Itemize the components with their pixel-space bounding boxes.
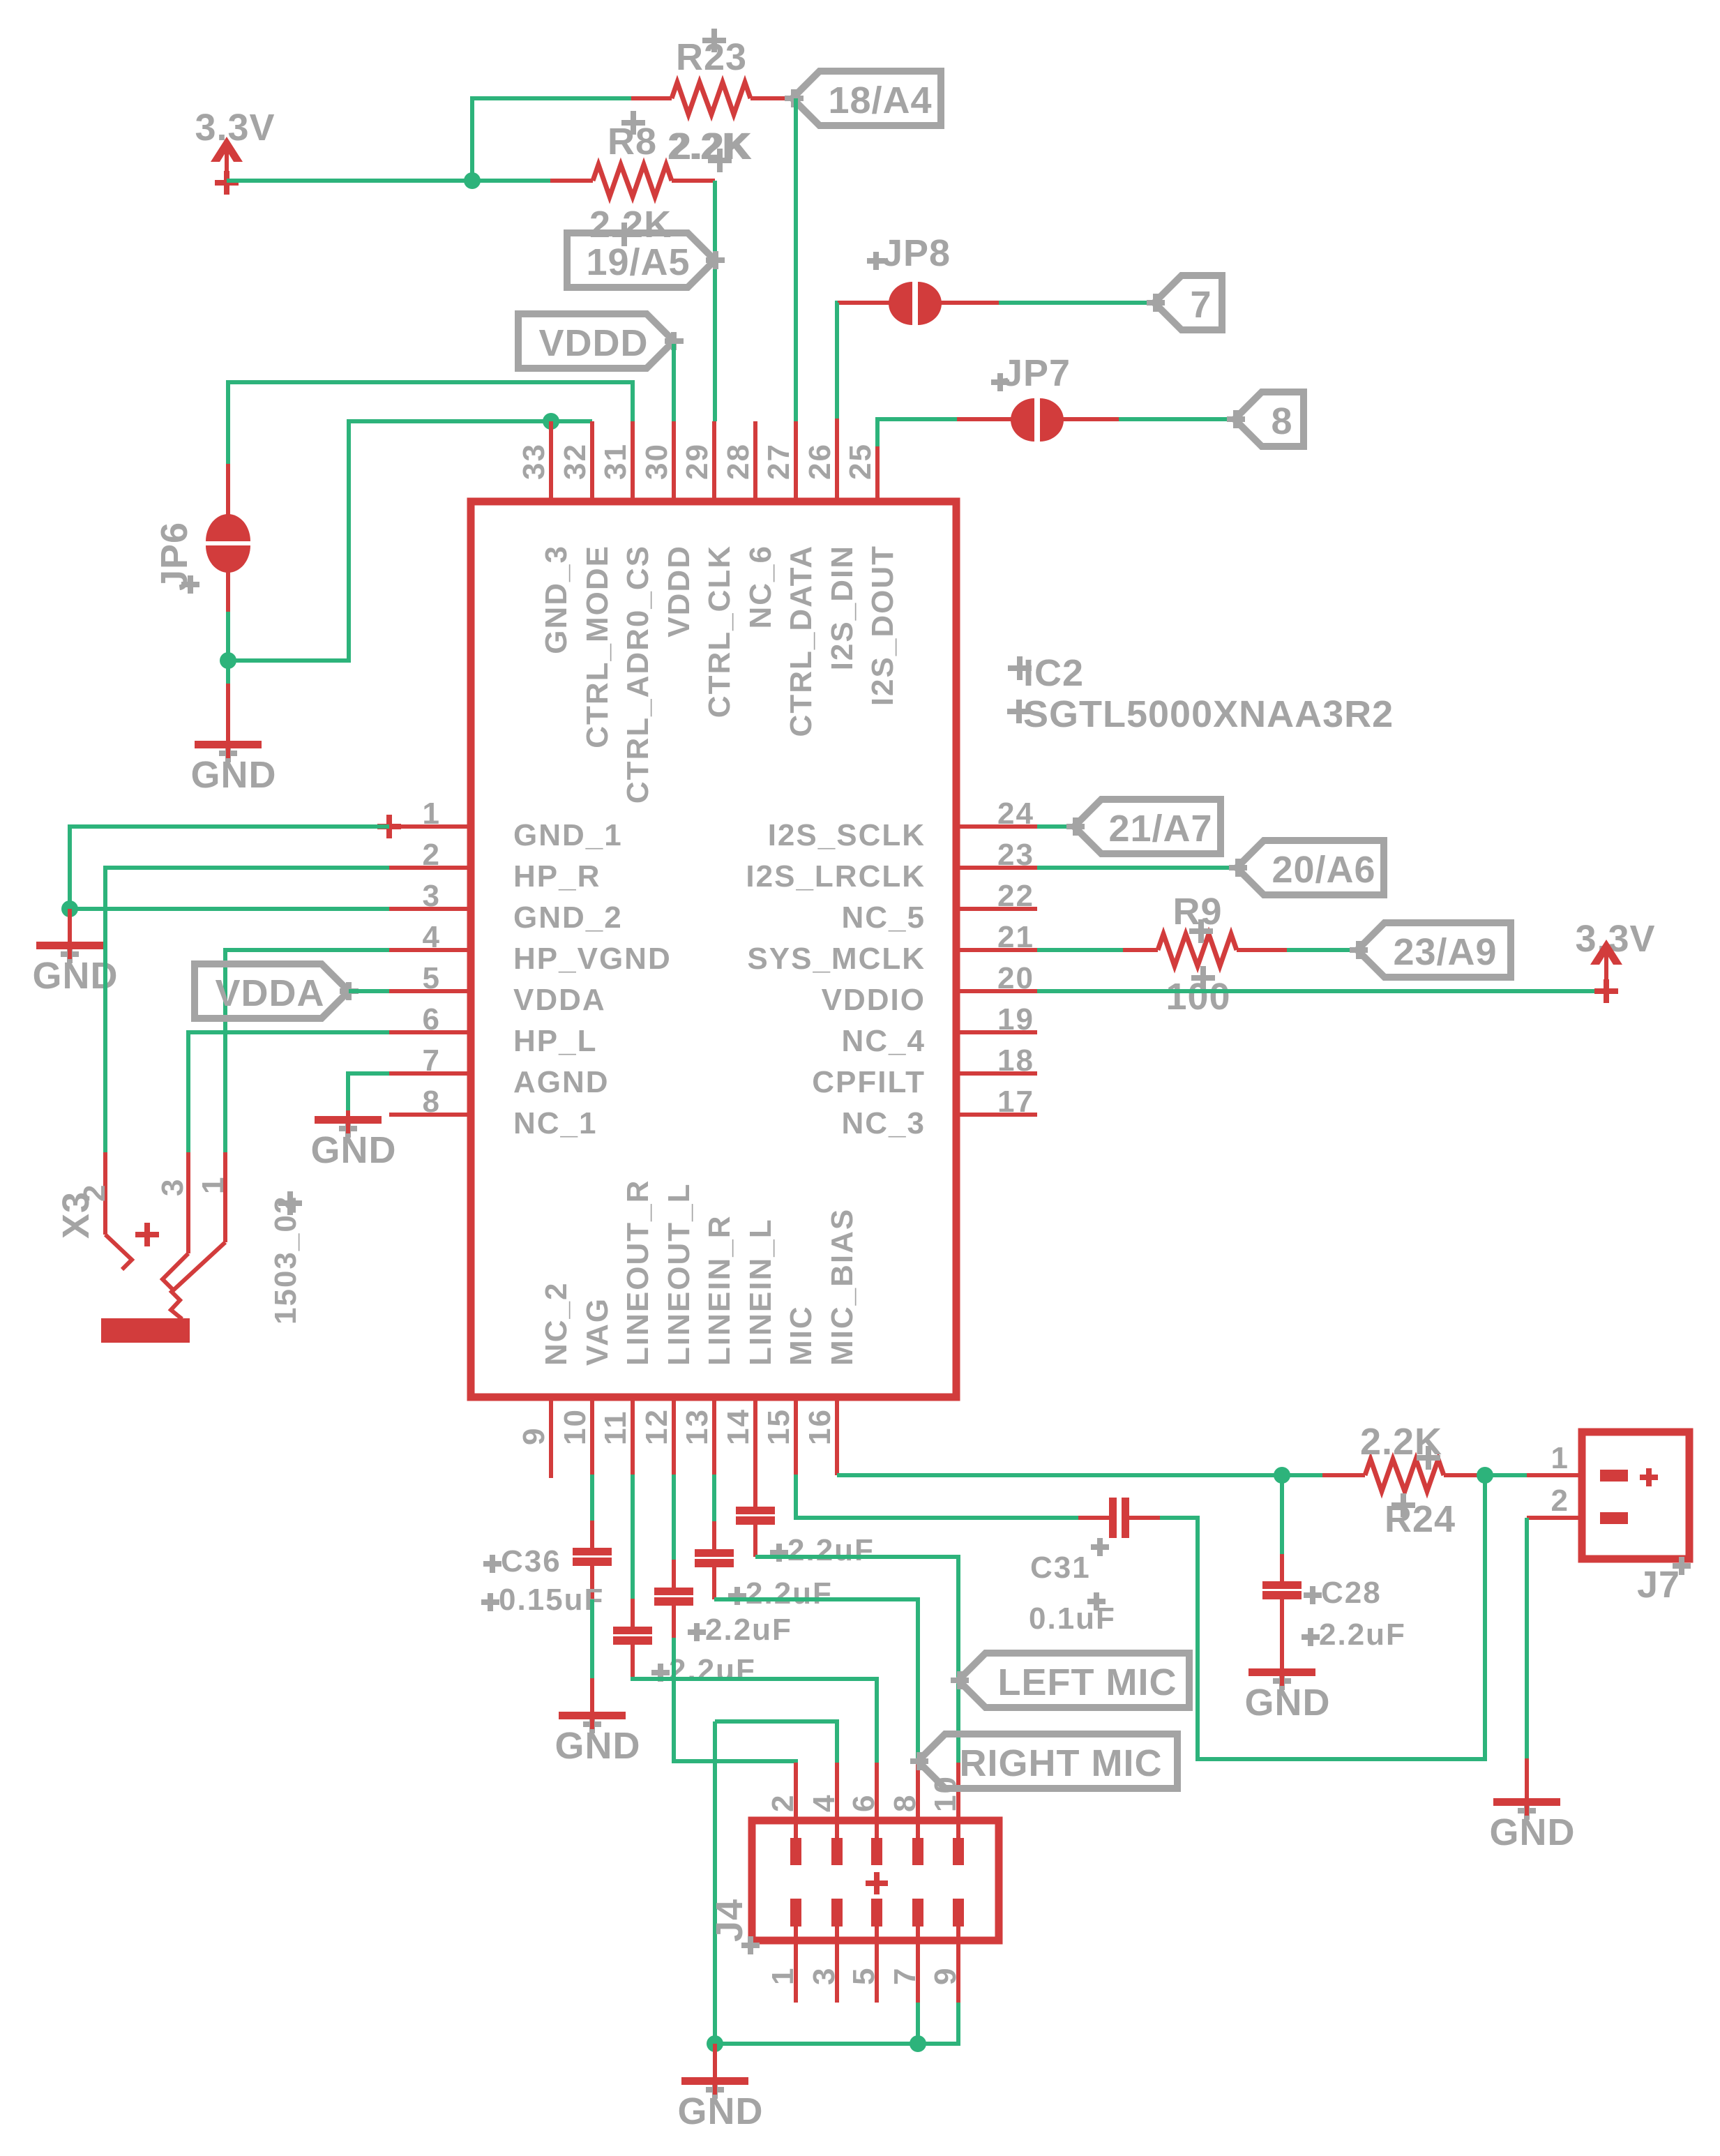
- IC2 pin 14 LINEIN_L: [721, 1218, 778, 1507]
- svg-text:1: 1: [1551, 1441, 1569, 1475]
- svg-text:4: 4: [423, 920, 441, 954]
- svg-text:GND_2: GND_2: [513, 900, 623, 935]
- svg-text:1: 1: [196, 1176, 230, 1194]
- svg-text:19: 19: [997, 1002, 1034, 1036]
- IC2 pin 15 MIC: [762, 1305, 818, 1475]
- svg-text:I2S_LRCLK: I2S_LRCLK: [746, 859, 926, 894]
- capacitor C28 2.2uF: [1262, 1554, 1406, 1668]
- svg-text:C31: C31: [1030, 1551, 1091, 1585]
- header J4: [709, 1763, 999, 2003]
- wire LINEIN_L cap to LEFT MIC / J4 pin 10: [755, 1557, 958, 1763]
- capacitor C31 0.1uF: [1029, 1498, 1160, 1636]
- svg-text:0.1uF: 0.1uF: [1029, 1601, 1116, 1636]
- resistor R9: [1123, 891, 1287, 1018]
- IC2 pin 18 CPFILT: [812, 1043, 1037, 1099]
- capacitor C36 0.15uF: [481, 1521, 612, 1617]
- wire IC pin 15 to C31: [796, 1475, 1078, 1518]
- svg-text:2: 2: [766, 1794, 800, 1812]
- IC2 pin 5 VDDA: [389, 961, 606, 1017]
- svg-text:100: 100: [1165, 976, 1230, 1018]
- svg-text:CPFILT: CPFILT: [812, 1065, 926, 1099]
- capacitor 2.2uF (LINEIN_R): [695, 1521, 833, 1611]
- resistor R8: [550, 111, 750, 246]
- svg-text:18/A4: 18/A4: [828, 80, 932, 121]
- wire VDDD flag to IC pin 30: [672, 344, 676, 421]
- svg-text:2: 2: [423, 838, 441, 872]
- svg-text:SGTL5000XNAA3R2: SGTL5000XNAA3R2: [1023, 693, 1394, 735]
- wire R9 to flag 23/A9: [1287, 948, 1357, 952]
- flag 7: [1147, 276, 1222, 330]
- svg-text:LINEOUT_R: LINEOUT_R: [621, 1179, 655, 1366]
- IC2 pin 11 LINEOUT_R: [598, 1179, 655, 1475]
- svg-text:NC_4: NC_4: [842, 1024, 926, 1058]
- wire IC pin 6 to jack X3 contact 3: [188, 1032, 389, 1152]
- junction at C28 tap: [1274, 1467, 1290, 1484]
- svg-text:CTRL_MODE: CTRL_MODE: [580, 545, 614, 748]
- wire C31 to R24/J7 node: [1160, 1475, 1485, 1759]
- svg-text:2.2uF: 2.2uF: [787, 1533, 875, 1567]
- wire IC pin 16 MIC_BIAS to R24: [837, 1473, 1322, 1477]
- svg-text:JP8: JP8: [882, 232, 951, 274]
- resistor R23: [631, 29, 795, 172]
- flag VDDD: [518, 314, 684, 368]
- svg-text:0.15uF: 0.15uF: [499, 1583, 604, 1617]
- wire R23 right down to IC pin 27: [794, 98, 798, 421]
- svg-text:2.2uF: 2.2uF: [705, 1613, 792, 1647]
- svg-text:21: 21: [997, 920, 1034, 954]
- wire junction to J7 pin 1: [1485, 1473, 1527, 1477]
- svg-text:3.3V: 3.3V: [195, 107, 275, 149]
- svg-text:13: 13: [680, 1408, 714, 1445]
- svg-text:MIC: MIC: [784, 1305, 818, 1366]
- IC2 pin 22 NC_5: [842, 879, 1038, 935]
- svg-text:3.3V: 3.3V: [1575, 918, 1655, 960]
- wire IC pin 26 up to JP8: [837, 303, 838, 421]
- svg-text:27: 27: [762, 443, 796, 480]
- svg-text:2.2K: 2.2K: [589, 204, 672, 246]
- wire LINEOUT_L cap to J4 pin 2: [674, 1638, 796, 1763]
- svg-text:RIGHT MIC: RIGHT MIC: [960, 1742, 1163, 1784]
- junction at JP6 bottom: [220, 652, 236, 669]
- flag 19/A5: [567, 233, 725, 287]
- ground GND below JP6: [191, 684, 277, 796]
- capacitor 2.2uF (LINEIN_L, on pin 14): [736, 1507, 875, 1567]
- svg-text:15: 15: [762, 1408, 796, 1445]
- svg-text:CTRL_CLK: CTRL_CLK: [702, 545, 737, 718]
- IC2 pin 12 LINEOUT_L: [640, 1183, 696, 1475]
- IC2 pin 10 VAG: [558, 1297, 614, 1475]
- IC2 pin 16 MIC_BIAS: [803, 1208, 859, 1475]
- svg-text:C36: C36: [501, 1544, 561, 1578]
- svg-text:7: 7: [423, 1043, 441, 1078]
- wire IC pin 3 to GND junction: [70, 907, 389, 911]
- svg-text:32: 32: [558, 443, 592, 480]
- jumper JP7: [957, 352, 1119, 442]
- wire JP6 top to IC pin 31: [228, 382, 633, 464]
- svg-text:9: 9: [517, 1427, 551, 1445]
- svg-text:28: 28: [721, 443, 755, 480]
- svg-text:GND_1: GND_1: [513, 818, 623, 852]
- svg-text:C28: C28: [1321, 1576, 1382, 1610]
- svg-text:GND: GND: [1245, 1682, 1331, 1724]
- svg-text:23: 23: [997, 838, 1034, 872]
- svg-text:NC_2: NC_2: [539, 1282, 573, 1366]
- svg-text:3: 3: [807, 1967, 841, 1985]
- wire junction up to R23 row: [472, 98, 631, 181]
- connector J7: [1527, 1432, 1691, 1606]
- junction J4 pin 7 at GND rail: [910, 2035, 926, 2052]
- svg-text:9: 9: [928, 1967, 963, 1985]
- IC2 origin cross (pin 1 tip): [377, 815, 401, 838]
- svg-text:29: 29: [680, 443, 714, 480]
- ground GND (below C28): [1245, 1664, 1331, 1724]
- IC2 pin 6 HP_L: [389, 1002, 597, 1058]
- wire JP6 bottom to GND and pins 33/32: [226, 612, 230, 684]
- svg-text:GND: GND: [311, 1129, 397, 1171]
- svg-text:LEFT MIC: LEFT MIC: [998, 1661, 1177, 1703]
- svg-text:20: 20: [997, 961, 1034, 995]
- IC2 pin 28 NC_6: [721, 421, 778, 629]
- IC2 pin 9 NC_2: [517, 1282, 573, 1479]
- IC2 name/value labels: [1007, 652, 1394, 735]
- wire IC pin 10 down to C36: [590, 1475, 594, 1521]
- IC2 pin 23 I2S_LRCLK: [746, 838, 1037, 894]
- svg-text:I2S_DIN: I2S_DIN: [825, 545, 859, 670]
- ground GND (below J4): [678, 2044, 764, 2132]
- IC2 pin 32 CTRL_MODE: [558, 421, 614, 748]
- IC2 pin 26 I2S_DIN: [803, 419, 859, 670]
- svg-text:25: 25: [843, 443, 877, 480]
- junction at 3.3V wire split: [464, 172, 481, 189]
- power flag 3.3V (right): [1575, 918, 1655, 1003]
- svg-text:7: 7: [1190, 284, 1212, 326]
- svg-text:VDDD: VDDD: [538, 322, 648, 364]
- svg-text:7: 7: [888, 1967, 922, 1985]
- junction at IC pin 33: [543, 413, 559, 430]
- svg-text:J7: J7: [1637, 1564, 1680, 1606]
- junction pins 1/3 GND: [61, 900, 78, 917]
- svg-text:VDDD: VDDD: [662, 545, 696, 638]
- wire LINEIN_R cap to RIGHT MIC / J4 pin 8: [714, 1599, 918, 1763]
- wire IC pin 23 to flag 20/A6: [1037, 866, 1237, 870]
- svg-text:19/A5: 19/A5: [586, 241, 690, 283]
- svg-text:VAG: VAG: [580, 1297, 614, 1366]
- svg-text:22: 22: [997, 879, 1034, 913]
- junction GND rail bottom: [707, 2035, 723, 2052]
- svg-text:J4: J4: [709, 1899, 750, 1942]
- svg-text:I2S_DOUT: I2S_DOUT: [866, 545, 900, 706]
- svg-text:CTRL_ADR0_CS: CTRL_ADR0_CS: [621, 545, 655, 804]
- wire IC pin 21 to R9: [1037, 948, 1123, 952]
- svg-text:1503_02: 1503_02: [269, 1196, 303, 1325]
- wire IC pin 20 to 3.3V right: [1037, 989, 1606, 993]
- svg-text:1: 1: [423, 797, 441, 831]
- svg-text:12: 12: [640, 1408, 674, 1445]
- wire IC pin 7 to GND: [348, 1073, 389, 1110]
- IC2 pin 4 HP_VGND: [389, 920, 672, 976]
- flag 23/A9: [1350, 923, 1511, 977]
- wire IC pin 25 to JP7: [877, 419, 957, 446]
- svg-text:23/A9: 23/A9: [1393, 931, 1497, 973]
- svg-text:20/A6: 20/A6: [1272, 849, 1375, 891]
- wire IC pin 13 down to cap: [712, 1475, 716, 1521]
- svg-text:14: 14: [721, 1408, 755, 1445]
- svg-text:GND: GND: [678, 2090, 764, 2132]
- svg-text:16: 16: [803, 1408, 837, 1445]
- svg-text:HP_R: HP_R: [513, 859, 601, 894]
- svg-text:21/A7: 21/A7: [1108, 808, 1212, 850]
- svg-text:1: 1: [766, 1967, 800, 1985]
- wire J4 pin 9 to GND rail: [715, 2003, 958, 2044]
- svg-text:5: 5: [847, 1967, 881, 1985]
- svg-text:LINEOUT_L: LINEOUT_L: [662, 1183, 696, 1366]
- junction at R24 right / J7 pin 1: [1477, 1467, 1493, 1484]
- flag VDDA: [195, 964, 359, 1018]
- svg-text:6: 6: [847, 1794, 881, 1812]
- svg-text:3: 3: [423, 879, 441, 913]
- svg-text:NC_5: NC_5: [842, 900, 926, 935]
- svg-text:11: 11: [598, 1410, 633, 1445]
- svg-text:JP7: JP7: [1002, 352, 1071, 394]
- svg-text:HP_VGND: HP_VGND: [513, 942, 672, 976]
- ground GND (J7 pin 2): [1490, 1758, 1576, 1853]
- flag 8: [1227, 392, 1304, 446]
- svg-text:NC_3: NC_3: [842, 1106, 926, 1140]
- wire IC pin 2 to jack X3 tip contact: [105, 868, 389, 1152]
- svg-text:8: 8: [1271, 400, 1292, 442]
- svg-text:6: 6: [423, 1002, 441, 1036]
- svg-text:5: 5: [423, 961, 441, 995]
- IC2 pin 17 NC_3: [842, 1085, 1038, 1140]
- svg-text:NC_6: NC_6: [744, 545, 778, 629]
- op-amp/codec IC2 SGTL5000 box: [471, 502, 956, 1397]
- svg-text:GND_3: GND_3: [539, 545, 573, 654]
- wire IC pin 4 to jack X3 contact 1: [225, 950, 389, 1152]
- wire C28 tap down: [1280, 1475, 1284, 1554]
- svg-text:IC2: IC2: [1023, 652, 1084, 694]
- svg-text:2: 2: [77, 1184, 112, 1202]
- flag RIGHT MIC: [910, 1734, 1177, 1788]
- jumper JP6: [153, 464, 250, 612]
- wire LINEOUT_R cap to J4 pin 6: [633, 1677, 877, 1763]
- svg-text:HP_L: HP_L: [513, 1024, 597, 1058]
- flag 21/A7: [1066, 799, 1221, 854]
- svg-text:SYS_MCLK: SYS_MCLK: [747, 942, 926, 976]
- wire IC pin 1 to GND junction: [70, 827, 389, 909]
- svg-text:24: 24: [997, 797, 1034, 831]
- IC2 pin 13 LINEIN_R: [680, 1215, 737, 1475]
- wire IC pin 24 to flag 21/A7: [1037, 824, 1074, 829]
- wire VDDA flag to IC pin 5: [349, 989, 389, 993]
- IC2 pin 7 AGND: [389, 1043, 610, 1099]
- svg-text:NC_1: NC_1: [513, 1106, 598, 1140]
- ground GND (pin 7 AGND): [311, 1110, 397, 1171]
- svg-text:MIC_BIAS: MIC_BIAS: [825, 1208, 859, 1366]
- IC2 pin 30 VDDD: [640, 421, 696, 638]
- IC2 pin 3 GND_2: [389, 879, 623, 935]
- wire JP8 to flag 7: [999, 301, 1154, 305]
- capacitor 2.2uF (LINEOUT_R): [613, 1599, 756, 1687]
- IC2 pin 19 NC_4: [842, 1002, 1038, 1058]
- IC2 pin 24 I2S_SCLK: [768, 797, 1037, 852]
- svg-text:GND: GND: [191, 754, 277, 796]
- IC2 pin 27 CTRL_DATA: [762, 421, 818, 737]
- ground GND (below C36): [555, 1678, 641, 1767]
- svg-text:2: 2: [1551, 1484, 1569, 1518]
- capacitor 2.2uF (LINEOUT_L): [654, 1560, 792, 1647]
- IC2 pin 21 SYS_MCLK: [747, 920, 1037, 976]
- svg-text:31: 31: [598, 443, 633, 480]
- wire JP7 to flag 8: [1119, 417, 1235, 421]
- svg-text:R9: R9: [1172, 891, 1222, 933]
- wire IC pin 12 down to cap: [672, 1475, 676, 1560]
- svg-text:26: 26: [803, 443, 837, 480]
- IC2 pin 8 NC_1: [389, 1085, 598, 1140]
- IC2 pin 2 HP_R: [389, 838, 601, 894]
- wire J4 pin 4 to GND rail: [715, 1721, 837, 1763]
- wire J7 pin 2 to GND: [1525, 1518, 1529, 1758]
- svg-text:2.2uF: 2.2uF: [669, 1653, 756, 1687]
- wire GND rail down left side of J4: [713, 1721, 717, 2044]
- svg-text:3: 3: [156, 1178, 190, 1196]
- svg-text:GND: GND: [555, 1725, 641, 1767]
- svg-text:2.2K: 2.2K: [667, 126, 750, 167]
- svg-text:I2S_SCLK: I2S_SCLK: [768, 818, 926, 852]
- svg-text:8: 8: [423, 1085, 441, 1119]
- jumper JP8: [838, 232, 999, 325]
- wire J4 pin 7 to GND rail: [916, 2003, 920, 2044]
- svg-text:33: 33: [517, 443, 551, 480]
- svg-text:VDDIO: VDDIO: [822, 983, 926, 1017]
- wire IC pin 11 down to cap: [631, 1475, 635, 1599]
- svg-text:18: 18: [997, 1043, 1034, 1078]
- svg-text:LINEIN_R: LINEIN_R: [702, 1215, 737, 1366]
- svg-text:2.2uF: 2.2uF: [1319, 1618, 1406, 1652]
- wire 3.3V to R8 (net pin29): [227, 179, 550, 183]
- svg-text:10: 10: [558, 1408, 592, 1445]
- svg-text:2.2uF: 2.2uF: [746, 1576, 833, 1611]
- svg-text:4: 4: [807, 1794, 841, 1812]
- IC2 pin 20 VDDIO: [822, 961, 1037, 1017]
- svg-text:CTRL_DATA: CTRL_DATA: [784, 545, 818, 737]
- IC2 pin 33 GND_3: [517, 421, 573, 654]
- ground GND (left, pins 1/3): [33, 909, 119, 997]
- svg-text:17: 17: [997, 1085, 1034, 1119]
- IC2 pin 31 CTRL_ADR0_CS: [598, 421, 655, 804]
- svg-text:VDDA: VDDA: [513, 983, 606, 1017]
- connector X3 headphone jack 1503_02: [55, 1152, 303, 1343]
- flag 18/A4: [785, 71, 941, 126]
- flag LEFT MIC: [951, 1653, 1189, 1708]
- svg-text:8: 8: [888, 1794, 922, 1812]
- wire C36 to GND: [590, 1599, 594, 1678]
- svg-text:AGND: AGND: [513, 1065, 610, 1099]
- power flag 3.3V (top left): [195, 107, 275, 195]
- svg-text:VDDA: VDDA: [215, 972, 324, 1014]
- IC2 pin 29 CTRL_CLK: [680, 421, 737, 718]
- svg-text:30: 30: [640, 443, 674, 480]
- IC2 pin 1 GND_1: [389, 797, 623, 852]
- svg-text:LINEIN_L: LINEIN_L: [744, 1218, 778, 1366]
- IC2 pin 25 I2S_DOUT: [843, 443, 900, 706]
- svg-text:GND: GND: [1490, 1811, 1576, 1853]
- resistor R24 2.2K: [1322, 1421, 1485, 1540]
- flag 20/A6: [1229, 840, 1384, 895]
- wire R8 right down to IC pin 29: [713, 181, 717, 421]
